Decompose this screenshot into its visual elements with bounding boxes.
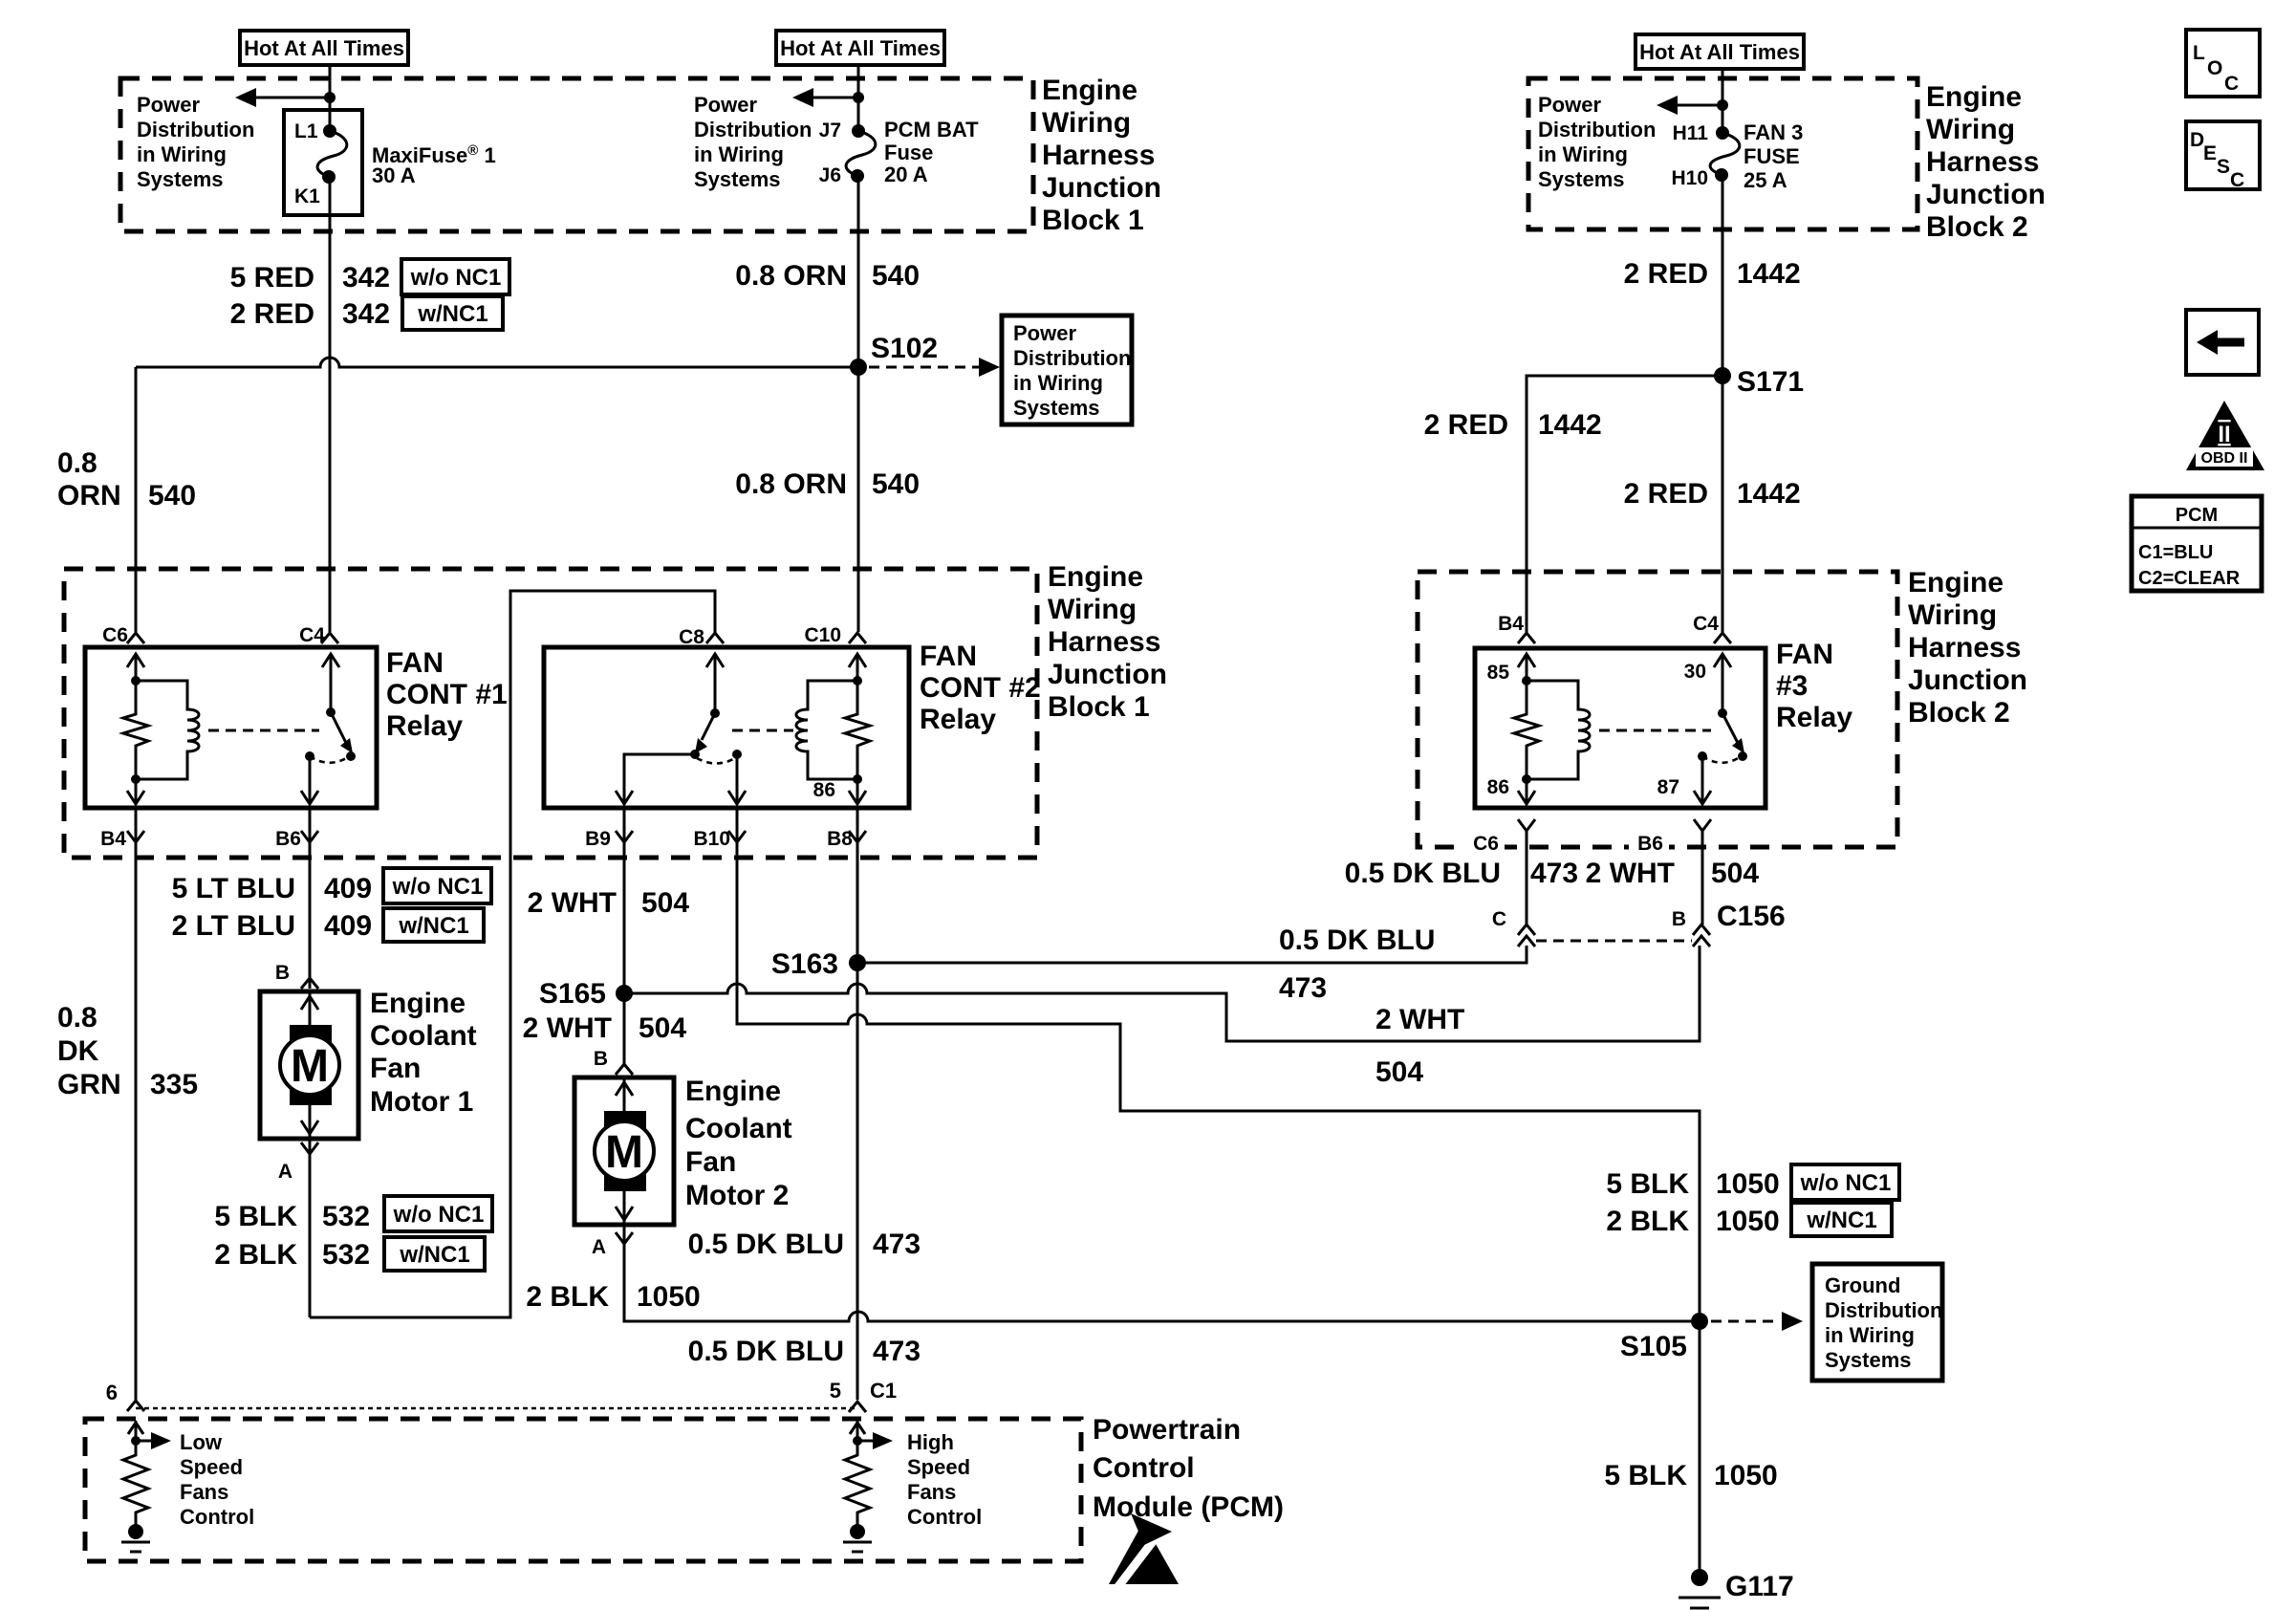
svg-text:in Wiring: in Wiring	[1013, 371, 1103, 395]
label: 5 RED 342 w/o NC1	[230, 259, 509, 294]
label: 2 WHT 504 (long wire)	[1375, 1004, 1464, 1088]
svg-text:Systems: Systems	[1825, 1348, 1912, 1372]
svg-text:ORN: ORN	[57, 480, 121, 511]
svg-text:K1: K1	[294, 185, 320, 207]
wire: PCM BAT output down to S102	[857, 176, 860, 632]
svg-text:C4: C4	[1693, 613, 1719, 635]
svg-text:Speed: Speed	[180, 1455, 243, 1479]
pin C4	[299, 624, 325, 646]
label box "Hot At All Times" 1	[240, 31, 408, 65]
svg-text:C156: C156	[1717, 901, 1786, 932]
svg-text:540: 540	[872, 260, 920, 292]
relay K3 bottom chevrons C6 B6	[1518, 819, 1711, 831]
svg-text:Fans: Fans	[907, 1480, 956, 1504]
label box: Ground Distribution in Wiring Systems	[1812, 1264, 1942, 1381]
svg-text:C6: C6	[102, 624, 128, 646]
relay K2 output wire to B9 with down arrow	[616, 754, 695, 804]
svg-text:5 BLK: 5 BLK	[1606, 1168, 1689, 1200]
icon: back arrow box	[2186, 310, 2259, 375]
label: 0.8 DK GRN 335	[57, 1002, 198, 1100]
svg-text:Wiring: Wiring	[1926, 114, 2015, 145]
svg-text:85: 85	[1487, 662, 1510, 684]
svg-text:w/o NC1: w/o NC1	[1800, 1170, 1892, 1196]
label box: Power Distribution in Wiring Systems (S102 ref)	[1002, 315, 1132, 424]
svg-text:M: M	[291, 1041, 329, 1092]
svg-text:Harness: Harness	[1042, 140, 1155, 171]
label: 0.5 DK BLU 473 (mid)	[688, 1229, 921, 1260]
node: junction dot on PCM BAT feed	[853, 92, 864, 103]
PCM low speed driver resistor	[123, 1441, 148, 1525]
pin A (motor2)	[592, 1236, 606, 1258]
wire: C156 B up to relay3 B6	[1701, 831, 1704, 925]
svg-text:0.5 DK BLU: 0.5 DK BLU	[1345, 858, 1501, 889]
svg-text:Systems: Systems	[1538, 167, 1625, 191]
svg-text:w/o NC1: w/o NC1	[392, 874, 484, 900]
svg-text:OBD II: OBD II	[2201, 450, 2248, 467]
svg-text:Systems: Systems	[1013, 396, 1100, 420]
relay K1 linkage dashed	[208, 729, 319, 732]
PCM low speed branch arrow	[136, 1432, 171, 1449]
text: Low Speed Fans Control	[180, 1430, 254, 1529]
svg-text:1050: 1050	[1714, 1460, 1778, 1491]
svg-text:High: High	[907, 1430, 954, 1454]
PCM pin 5 connector chevron	[849, 1402, 866, 1412]
svg-text:409: 409	[324, 873, 372, 904]
svg-text:w/NC1: w/NC1	[398, 913, 468, 939]
motor M1 Engine Coolant Fan Motor 1 box	[260, 991, 358, 1139]
svg-text:2 RED: 2 RED	[230, 298, 314, 330]
svg-text:Junction: Junction	[1042, 172, 1161, 204]
relay K1 switch blade	[331, 712, 356, 761]
dashed box: Engine Wiring Harness Junction Block 2 (top)	[1528, 78, 1917, 229]
label: 0.8 ORN 540 (left)	[57, 447, 196, 511]
label: 5 BLK 1050 (ground)	[1604, 1460, 1777, 1491]
wire: S171 branch left and down to relay3 B4	[1527, 376, 1722, 632]
svg-text:2 WHT: 2 WHT	[1586, 858, 1675, 889]
label: 5 BLK 1050 w/o NC1	[1606, 1164, 1899, 1200]
svg-text:473: 473	[873, 1229, 921, 1260]
svg-text:E: E	[2203, 142, 2217, 164]
wire: S165 right with hops to 2 WHT jog	[624, 946, 1700, 1041]
label box "Hot At All Times" 3	[1635, 34, 1804, 69]
svg-text:Powertrain: Powertrain	[1093, 1414, 1241, 1446]
svg-text:Engine: Engine	[370, 988, 466, 1019]
svg-text:B4: B4	[100, 828, 126, 850]
svg-text:FAN: FAN	[920, 641, 977, 672]
svg-text:Harness: Harness	[1926, 146, 2039, 178]
svg-text:L1: L1	[294, 120, 318, 142]
label: C156	[1717, 901, 1786, 932]
svg-text:Distribution: Distribution	[694, 118, 812, 141]
svg-text:2 WHT: 2 WHT	[523, 1012, 612, 1044]
svg-text:J6: J6	[819, 164, 841, 186]
motor M2 Engine Coolant Fan Motor 2 box	[574, 1077, 674, 1225]
text: Engine Wiring Harness Junction Block 1 (relay row)	[1048, 561, 1167, 723]
icon: DESC box	[2186, 121, 2260, 191]
text: Power Distribution in Wiring Systems (middle)	[694, 93, 812, 191]
label: 2 BLK 1050 (motor2)	[526, 1281, 700, 1313]
pin 86 (relay K3)	[1487, 776, 1509, 798]
relay K3 output wire with down arrow	[1694, 756, 1711, 804]
icon: PCM connector legend box	[2132, 496, 2262, 591]
wire: relay1 B4 down to PCM pin 6 (0.8 DK GRN 335)	[135, 808, 138, 1400]
svg-text:30 A: 30 A	[372, 163, 416, 187]
fuse F2 PCM BAT element J7-J6	[846, 124, 876, 183]
svg-text:C10: C10	[804, 624, 841, 646]
svg-text:B: B	[1672, 908, 1686, 930]
svg-text:335: 335	[150, 1069, 198, 1100]
svg-text:Coolant: Coolant	[685, 1113, 792, 1144]
svg-text:B6: B6	[1637, 833, 1663, 855]
svg-text:1442: 1442	[1737, 478, 1801, 510]
svg-text:Motor 2: Motor 2	[685, 1180, 789, 1211]
node S165	[539, 978, 633, 1010]
svg-text:C2=CLEAR: C2=CLEAR	[2138, 568, 2241, 589]
text: PCM BAT Fuse 20 A	[884, 118, 979, 186]
svg-text:25 A: 25 A	[1744, 168, 1787, 192]
motor M1 internals	[280, 993, 339, 1137]
svg-text:in Wiring: in Wiring	[1538, 142, 1628, 166]
svg-text:C6: C6	[1473, 833, 1499, 855]
svg-text:Block 1: Block 1	[1042, 205, 1144, 236]
svg-text:D: D	[2190, 129, 2204, 151]
svg-text:1050: 1050	[1716, 1168, 1780, 1200]
svg-text:Harness: Harness	[1908, 632, 2021, 664]
svg-text:2 RED: 2 RED	[1624, 478, 1708, 510]
svg-text:L: L	[2193, 42, 2205, 64]
svg-text:Control: Control	[180, 1505, 254, 1529]
wire: relay1 B6 down to motor1 B	[309, 808, 312, 989]
relay K1 coil output wire with down arrow	[127, 779, 144, 804]
relay K1 bottom chevrons B4 B6	[127, 831, 318, 842]
wire: motor1 ground loop up to relay2 C8	[310, 591, 715, 1317]
svg-text:2 BLK: 2 BLK	[526, 1281, 609, 1313]
svg-text:Fan: Fan	[685, 1146, 736, 1178]
relay K3 common wire with up arrow	[1714, 654, 1731, 718]
svg-text:Block 2: Block 2	[1926, 211, 2028, 243]
relay K3 resistor	[1514, 681, 1539, 779]
svg-text:Hot At All Times: Hot At All Times	[244, 36, 404, 60]
svg-text:FAN: FAN	[386, 647, 444, 679]
dashed box: Engine Wiring Harness Junction Block 2 (relay row)	[1418, 572, 1897, 847]
svg-text:PCM: PCM	[2176, 505, 2218, 526]
svg-text:Junction: Junction	[1926, 179, 2046, 210]
text: FAN CONT #2 Relay	[920, 641, 1041, 735]
label: 5 BLK 532 w/o NC1	[214, 1196, 492, 1232]
node S105	[1620, 1313, 1708, 1362]
svg-text:FUSE: FUSE	[1744, 144, 1800, 168]
svg-text:B8: B8	[827, 828, 853, 850]
label: 0.8 ORN 540 (middle upper)	[735, 260, 920, 292]
icon: LOC box	[2186, 30, 2260, 97]
C156 connector chevrons C and B	[1518, 925, 1710, 946]
svg-text:C1=BLU: C1=BLU	[2138, 542, 2213, 563]
svg-text:GRN: GRN	[57, 1069, 121, 1100]
relay K1 coil input wire with up arrow	[127, 654, 144, 685]
svg-text:A: A	[592, 1236, 606, 1258]
dashed box: Engine Wiring Harness Junction Block 1 (top)	[120, 78, 1033, 231]
svg-text:0.5 DK BLU: 0.5 DK BLU	[688, 1229, 844, 1260]
svg-text:C4: C4	[299, 624, 325, 646]
wire: Hot3 feed down	[1722, 69, 1724, 133]
fuse F1 element L1-K1	[317, 124, 347, 184]
node S171	[1714, 366, 1804, 398]
svg-text:Engine: Engine	[1042, 75, 1137, 106]
pin B (motor2)	[594, 1048, 608, 1070]
pin B (motor1)	[275, 962, 290, 984]
svg-text:B: B	[275, 962, 290, 984]
svg-text:M: M	[605, 1127, 643, 1178]
label: 2 LT BLU 409 w/NC1	[172, 908, 484, 942]
svg-text:DK: DK	[57, 1035, 99, 1067]
svg-text:S102: S102	[871, 333, 938, 364]
label: 2 WHT 504 (lower)	[523, 1012, 687, 1044]
relay K1 common wire with up arrow	[322, 654, 339, 717]
ground G117	[1679, 1569, 1794, 1608]
svg-text:2 RED: 2 RED	[1424, 409, 1508, 441]
svg-text:Engine: Engine	[1926, 81, 2022, 113]
svg-text:Hot At All Times: Hot At All Times	[780, 36, 941, 60]
wire: relay2 B10 down right down right to S105 vertical	[737, 808, 1700, 1313]
pin J6	[819, 164, 841, 186]
svg-text:5 BLK: 5 BLK	[214, 1201, 297, 1232]
svg-text:504: 504	[1711, 858, 1759, 889]
svg-text:0.8: 0.8	[57, 447, 97, 479]
relay K3 coil	[1522, 681, 1590, 784]
text: FAN CONT #1 Relay	[386, 647, 508, 742]
text: Power Distribution in Wiring Systems (left)	[137, 93, 254, 191]
svg-text:Power: Power	[137, 93, 200, 117]
relay K2 resistor on main wire	[845, 676, 870, 784]
svg-text:w/NC1: w/NC1	[1806, 1207, 1876, 1233]
svg-text:in Wiring: in Wiring	[694, 142, 784, 166]
svg-text:w/o NC1: w/o NC1	[393, 1202, 485, 1228]
svg-text:Junction: Junction	[1908, 664, 2027, 696]
svg-text:Block 2: Block 2	[1908, 697, 2010, 729]
pin L1	[294, 120, 318, 142]
node S163	[771, 948, 866, 980]
svg-text:Motor 1: Motor 1	[370, 1086, 473, 1118]
PCM high speed input wire with up arrow	[850, 1421, 865, 1446]
label: 0.5 DK BLU 473 (at PCM)	[688, 1336, 921, 1367]
svg-text:Hot At All Times: Hot At All Times	[1639, 40, 1800, 64]
svg-text:532: 532	[322, 1201, 370, 1232]
svg-text:Wiring: Wiring	[1908, 599, 1997, 631]
motor1 connector chevron A	[301, 1142, 318, 1154]
svg-text:Module (PCM): Module (PCM)	[1093, 1491, 1284, 1523]
wire: relay2 B9 down to S165 and motor2 B	[623, 808, 626, 1067]
svg-text:Coolant: Coolant	[370, 1020, 477, 1052]
svg-text:in Wiring: in Wiring	[137, 142, 227, 166]
svg-text:C1: C1	[870, 1379, 897, 1403]
svg-text:5: 5	[830, 1379, 841, 1403]
svg-text:Engine: Engine	[1908, 567, 2004, 598]
relay K2 coil input wire with up arrow	[849, 654, 866, 681]
svg-text:532: 532	[322, 1239, 370, 1271]
svg-text:Power: Power	[694, 93, 757, 117]
svg-text:#3: #3	[1776, 670, 1808, 702]
pin 87	[1657, 776, 1679, 798]
wire: Hot2 feed down	[857, 65, 860, 131]
svg-text:342: 342	[342, 262, 390, 294]
svg-text:473: 473	[1530, 858, 1578, 889]
relay K2 common wire with up arrow	[706, 654, 724, 718]
relay K3 FAN #3: connector chevrons B4 C4	[1518, 633, 1731, 643]
wire: FAN3 fuse output down to S171 and relay3 C4	[1722, 175, 1724, 632]
pin K1	[294, 185, 320, 207]
svg-text:w/NC1: w/NC1	[399, 1242, 469, 1268]
pin H11	[1673, 122, 1709, 144]
svg-text:Power: Power	[1013, 321, 1076, 345]
svg-text:Control: Control	[1093, 1452, 1195, 1484]
wire: left vertical drop ORN 540 to relay1 C6	[135, 367, 138, 632]
svg-text:II: II	[2218, 422, 2230, 447]
relay K3 coil input wire with up arrow	[1518, 654, 1535, 685]
pin B4	[100, 828, 126, 850]
svg-text:86: 86	[813, 779, 835, 801]
svg-text:5 LT BLU: 5 LT BLU	[172, 873, 295, 904]
wire: power distribution branch arrow (middle)	[792, 88, 858, 107]
relay K1 FAN CONT #1 box	[85, 647, 377, 808]
svg-text:87: 87	[1657, 776, 1679, 798]
relay K2 coil	[796, 681, 857, 779]
svg-text:Distribution: Distribution	[1013, 346, 1131, 370]
wire: motor2 A down and right to S105 (2 BLK 1050)	[624, 1225, 1691, 1321]
motor2 connector chevron B	[616, 1064, 633, 1075]
svg-text:B: B	[594, 1048, 608, 1070]
relay K2 linkage dashed	[732, 729, 793, 732]
svg-text:Fan: Fan	[370, 1053, 421, 1084]
wire: Hot1 feed down into MaxiFuse	[329, 65, 332, 131]
svg-text:S105: S105	[1620, 1331, 1687, 1362]
PCM high speed internal ground	[843, 1524, 872, 1552]
svg-text:FAN: FAN	[1776, 639, 1833, 670]
svg-text:Distribution: Distribution	[1825, 1298, 1942, 1322]
relay K1 switch contact and travel arc	[305, 751, 351, 763]
label: 2 RED 1442 (right upper)	[1624, 258, 1801, 290]
svg-text:PCM BAT: PCM BAT	[884, 118, 979, 141]
svg-text:2 WHT: 2 WHT	[528, 887, 617, 919]
PCM high speed driver resistor	[845, 1441, 870, 1525]
label: 0.8 ORN 540 (middle lower)	[735, 468, 920, 500]
svg-text:S: S	[2217, 156, 2230, 178]
svg-text:H11: H11	[1673, 122, 1709, 144]
svg-text:C: C	[1492, 908, 1506, 930]
motor M2 internals	[595, 1079, 654, 1223]
svg-text:J7: J7	[819, 120, 841, 141]
svg-text:CONT #2: CONT #2	[920, 672, 1041, 704]
relay K2 switch blade	[695, 713, 715, 753]
PCM high speed branch arrow	[857, 1432, 893, 1449]
text: Engine Coolant Fan Motor 2	[685, 1076, 792, 1211]
svg-text:Relay: Relay	[920, 704, 996, 735]
svg-text:2 BLK: 2 BLK	[1606, 1206, 1689, 1237]
label: 2 BLK 532 w/NC1	[214, 1237, 485, 1271]
svg-text:Distribution: Distribution	[137, 118, 254, 141]
PCM low speed internal ground	[121, 1524, 150, 1552]
text: Engine Wiring Harness Junction Block 2 (relay row)	[1908, 567, 2027, 729]
svg-text:504: 504	[641, 887, 689, 919]
label: 2 RED 1442 (right-left branch)	[1424, 409, 1602, 441]
svg-text:1442: 1442	[1538, 409, 1602, 441]
pin J7	[819, 120, 841, 141]
wire: S105 dashed arrow to Ground Distribution box	[1711, 1312, 1803, 1331]
svg-text:1442: 1442	[1737, 258, 1801, 290]
text: Engine Wiring Harness Junction Block 2 (top)	[1926, 81, 2046, 243]
pin C8	[679, 626, 704, 648]
pin 30	[1684, 661, 1706, 683]
wire: S102 dashed arrow to Power Distribution box	[869, 358, 1000, 377]
svg-text:2 BLK: 2 BLK	[214, 1239, 297, 1271]
svg-text:540: 540	[148, 480, 196, 511]
svg-text:0.8 ORN: 0.8 ORN	[735, 468, 847, 500]
svg-text:504: 504	[1375, 1056, 1423, 1088]
label: 2 RED 1442 (right lower)	[1624, 478, 1801, 510]
svg-text:S165: S165	[539, 978, 606, 1010]
pin C10	[804, 624, 841, 646]
relay K1 FAN CONT #1: connector chevrons C6 C4	[127, 633, 338, 643]
svg-text:2 WHT: 2 WHT	[1375, 1004, 1464, 1035]
svg-text:0.5 DK BLU: 0.5 DK BLU	[1279, 925, 1435, 956]
svg-text:C: C	[2224, 73, 2239, 95]
relay K1 coil	[131, 681, 199, 784]
svg-text:473: 473	[873, 1336, 921, 1367]
text: Engine Wiring Harness Junction Block 1 (top)	[1042, 75, 1161, 236]
svg-text:O: O	[2207, 57, 2222, 79]
label box "Hot At All Times" 2	[776, 31, 944, 65]
relay K2 switch contacts and travel arc	[690, 750, 742, 764]
svg-text:2 LT BLU: 2 LT BLU	[172, 910, 295, 942]
pin 86 (relay K2)	[813, 779, 835, 801]
svg-text:30: 30	[1684, 661, 1706, 683]
text: FAN 3 FUSE 25 A	[1744, 120, 1803, 192]
pin C4 (relay K3)	[1693, 613, 1719, 635]
pin C6	[102, 624, 128, 646]
svg-text:473: 473	[1279, 972, 1327, 1004]
relay K2 FAN CONT #2: connector chevrons C8 C10	[706, 633, 866, 643]
svg-text:S171: S171	[1737, 366, 1804, 398]
icon: OBD II triangle	[2186, 401, 2264, 470]
relay K3 switch blade	[1722, 713, 1747, 761]
svg-text:409: 409	[324, 910, 372, 942]
text: High Speed Fans Control	[907, 1430, 982, 1529]
svg-text:H10: H10	[1671, 167, 1708, 189]
pin A (motor1)	[278, 1161, 292, 1183]
wire: power distribution branch arrow (left)	[235, 88, 330, 107]
dashed connector line C1	[136, 1407, 857, 1410]
svg-text:6: 6	[106, 1381, 118, 1404]
relay K2 coil output wire with down arrow	[849, 779, 866, 804]
fuse F3 FAN3 element H11-H10	[1710, 126, 1740, 182]
svg-text:Speed: Speed	[907, 1455, 970, 1479]
svg-text:504: 504	[639, 1012, 686, 1044]
svg-text:0.5 DK BLU: 0.5 DK BLU	[688, 1336, 844, 1367]
fuse F1 MaxiFuse 1 box	[284, 110, 362, 215]
relay K2 FAN CONT #2 box	[544, 647, 909, 808]
pin B8	[827, 828, 853, 850]
svg-text:1050: 1050	[637, 1281, 701, 1313]
svg-text:Relay: Relay	[386, 710, 463, 742]
svg-text:Distribution: Distribution	[1538, 118, 1656, 141]
pin B10	[693, 828, 730, 850]
svg-text:1050: 1050	[1716, 1206, 1780, 1237]
svg-text:Systems: Systems	[137, 167, 224, 191]
svg-text:Fuse: Fuse	[884, 141, 933, 164]
label: 0.5 DK BLU 473 (long wire)	[1279, 925, 1435, 1004]
pin C6 (relay K3)	[1464, 832, 1505, 855]
pin B9	[585, 828, 611, 850]
svg-text:B4: B4	[1498, 613, 1524, 635]
